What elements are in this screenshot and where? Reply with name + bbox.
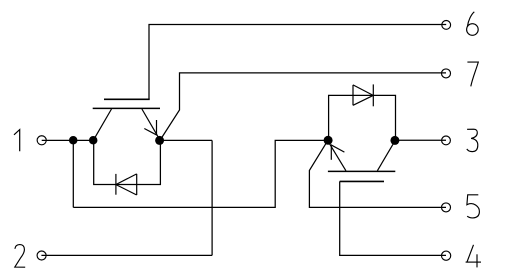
pin label 2 — [15, 245, 25, 268]
wire pin3 — [395, 139, 446, 141]
transistor Q1 (upper IGBT) — [93, 99, 160, 139]
wire junction A drop — [72, 140, 74, 207]
node junction dot 1 — [69, 136, 78, 145]
wire aux emitter Q1 to pin 7 — [161, 73, 446, 138]
wire pin2 — [41, 254, 212, 256]
wire emitter node to bus corner — [160, 139, 213, 141]
transistor Q2 (lower IGBT, inverted) — [328, 141, 395, 181]
wire diode D2 loop — [329, 95, 396, 138]
terminal circle pin 4 — [442, 251, 451, 260]
diode D1 (antiparallel to Q1) — [116, 174, 137, 195]
pin label 5 — [467, 195, 480, 218]
terminal circle pin 3 — [442, 136, 451, 145]
node junction dot 2 — [89, 136, 98, 145]
node junction dot 4 — [324, 136, 333, 145]
terminal circle pin 7 — [442, 69, 451, 78]
wire pin1 rail to collector node — [42, 139, 93, 141]
wire bottom link to Q2 emitter — [73, 140, 328, 207]
diode D2 (antiparallel to Q2) — [353, 84, 373, 106]
pin label 6 — [467, 12, 479, 36]
terminal circle pin 2 — [37, 251, 46, 260]
pin label 4 — [466, 245, 481, 268]
terminal circle pin 6 — [442, 21, 451, 30]
pin label 7 — [467, 62, 478, 86]
pin label 1 — [14, 130, 20, 152]
terminal circle pin 5 — [442, 203, 451, 212]
wire vertical emitter bus to pin2 level — [211, 140, 213, 255]
pin label 3 — [467, 129, 478, 151]
wire gate Q2 to pin 4 — [340, 181, 446, 255]
wire aux emitter Q2 to pin 5 — [309, 142, 446, 208]
wire gate Q1 to pin 6 — [149, 25, 446, 100]
node junction dot 5 — [390, 136, 399, 145]
terminal circle pin 1 — [37, 136, 46, 145]
wire diode D1 loop — [94, 142, 161, 185]
node junction dot 3 — [155, 136, 164, 145]
